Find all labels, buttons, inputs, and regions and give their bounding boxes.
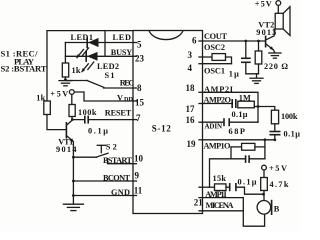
svg-text:AMP1O: AMP1O	[204, 141, 232, 150]
wire BUSY pin23	[65, 55, 133, 57]
svg-text:+5V: +5V	[50, 90, 68, 99]
svg-text:15k: 15k	[213, 174, 227, 183]
switch S1	[66, 71, 115, 88]
wire AMP2O pin17	[203, 103, 232, 105]
wire RESET pin7	[88, 119, 133, 121]
svg-text:21: 21	[194, 197, 204, 207]
resistor R (OSC2)	[212, 54, 226, 61]
wire MICENA pin21	[203, 210, 244, 212]
svg-text:ADIN: ADIN	[205, 122, 223, 130]
svg-text:8: 8	[137, 83, 142, 93]
svg-text:BCONT: BCONT	[103, 173, 130, 182]
capacitor C 0.1u (AMP2 chain)	[270, 124, 301, 140]
svg-text:1k: 1k	[72, 66, 81, 75]
svg-text:10: 10	[134, 154, 144, 164]
wire +5V to VDD	[74, 92, 133, 101]
wire COUT pin6	[203, 40, 266, 42]
ground (main left bus)	[63, 204, 83, 210]
wire feedback to AMP1I	[210, 159, 232, 187]
svg-text:LED2: LED2	[97, 62, 119, 71]
svg-text:REC: REC	[120, 79, 135, 88]
capacitor C 1u	[229, 41, 259, 78]
svg-text:23: 23	[135, 54, 145, 64]
node: 1k bottom / S1 junction	[64, 78, 67, 81]
microphone B	[257, 200, 280, 215]
wire OSC2 pin3	[203, 56, 213, 58]
node COUT/220	[257, 40, 260, 43]
IC U1 S-12 body	[133, 31, 203, 214]
svg-text:BSTART: BSTART	[103, 156, 132, 165]
wire BSTART pin10	[108, 159, 134, 164]
wire OSC1 pin4	[203, 63, 232, 65]
top-left wire from 1k to IC top	[47, 31, 133, 101]
wire emitter to ground	[273, 50, 274, 53]
svg-text:0.1μ: 0.1μ	[232, 110, 248, 119]
IC notch	[149, 31, 183, 40]
svg-text:19: 19	[187, 139, 197, 149]
svg-text:18: 18	[186, 83, 196, 93]
left pin stubs	[133, 43, 137, 196]
capacitor C 0.1u (AMP2O)	[232, 99, 236, 108]
svg-text:+5V: +5V	[255, 0, 272, 9]
svg-text:RESET: RESET	[105, 108, 132, 117]
svg-text:17: 17	[186, 104, 196, 114]
svg-text:GND: GND	[111, 188, 130, 197]
LED LED2	[81, 51, 119, 73]
wire BCONT pin9	[73, 180, 133, 182]
wire 100k bottom to node	[72, 117, 85, 120]
svg-text:OSC2: OSC2	[204, 43, 225, 52]
svg-text:AMP2I: AMP2I	[204, 85, 233, 94]
svg-text:100k: 100k	[281, 112, 298, 121]
svg-text:AMP2O: AMP2O	[204, 95, 232, 104]
svg-text:6: 6	[192, 36, 197, 46]
svg-text:1k: 1k	[36, 93, 45, 102]
svg-text:LED1: LED1	[71, 33, 94, 42]
svg-text:+5V: +5V	[269, 164, 287, 173]
wire 1k to VT1 base	[47, 115, 66, 130]
node AMP1O/feedback	[264, 138, 267, 141]
svg-text:S2 :BSTART: S2 :BSTART	[1, 64, 47, 74]
svg-text:0.1μ: 0.1μ	[88, 126, 108, 135]
svg-text:V: V	[117, 94, 123, 103]
wire +5V down to 100k	[71, 94, 73, 104]
wire GND pin11	[73, 195, 133, 197]
wire AMP1I label pin	[203, 198, 265, 227]
capacitor C 68P	[224, 118, 229, 126]
wire AMP1I pin20	[203, 186, 215, 188]
wire AMP1O pin19	[203, 139, 275, 141]
wire AMP2I pin18	[203, 92, 259, 122]
svg-text:4.7k: 4.7k	[270, 180, 289, 189]
wire REC pin8	[104, 87, 134, 89]
svg-text:1M: 1M	[239, 94, 251, 103]
capacitor C 0.1u (mic)	[230, 183, 236, 191]
resistor R 220	[255, 41, 288, 78]
resistor R 1k (LED chain)	[62, 63, 68, 77]
resistor R 4.7k	[261, 170, 289, 201]
svg-text:S1: S1	[105, 71, 115, 80]
resistor R 100k (AMP2)	[271, 110, 278, 124]
svg-text:S-12: S-12	[152, 123, 172, 133]
svg-text:0.1μ: 0.1μ	[238, 177, 257, 186]
svg-text:LED: LED	[113, 33, 132, 42]
svg-text:100k: 100k	[78, 108, 97, 117]
node COUT/1u	[244, 40, 247, 43]
right pin stubs	[199, 41, 203, 211]
capacitor C 0.1u (reset)	[85, 116, 88, 124]
wire busy-to-top vertical	[104, 31, 106, 57]
svg-text:11: 11	[134, 185, 143, 195]
svg-text:MICENA: MICENA	[206, 201, 234, 210]
transistor Q VT2 9013	[256, 20, 276, 50]
svg-text:AMP1I: AMP1I	[205, 190, 227, 199]
transistor Q VT1 9014	[56, 120, 77, 154]
terminal +5V (mic)	[262, 165, 267, 170]
svg-text:15: 15	[135, 98, 145, 108]
svg-text:BUSY: BUSY	[111, 48, 133, 57]
svg-text:220 Ω: 220 Ω	[264, 62, 288, 71]
svg-text:4: 4	[188, 63, 193, 73]
svg-text:7: 7	[136, 113, 141, 123]
svg-text:OSC1: OSC1	[204, 66, 225, 75]
svg-text:0.1μ: 0.1μ	[284, 130, 301, 139]
wire LED pin5	[65, 42, 133, 44]
capacitor C (AMP1 feedback)	[231, 147, 265, 163]
resistor R 1k (left, base of VT1)	[44, 101, 51, 115]
ground (LED 1k)	[59, 81, 72, 86]
terminal +5V (speaker)	[276, 1, 281, 6]
svg-text:16: 16	[186, 115, 196, 125]
svg-text:B: B	[274, 204, 280, 213]
switch S2 (pushbutton)	[73, 143, 116, 158]
resistor R (AMP1 feedback)	[231, 140, 265, 150]
svg-text:COUT: COUT	[204, 32, 227, 41]
wire ADIN pin16	[203, 121, 224, 123]
svg-text:3: 3	[188, 50, 193, 60]
ground (VT2 emitter)	[269, 53, 281, 58]
node mic/4.7k	[262, 193, 265, 196]
wire LED bus vertical	[64, 43, 66, 64]
resistor R 100k (reset)	[69, 105, 75, 117]
svg-text:9013: 9013	[256, 28, 276, 37]
terminal +5V (left)	[69, 90, 74, 95]
svg-text:9: 9	[135, 171, 140, 181]
LED LED1	[71, 33, 99, 59]
svg-text:DD: DD	[124, 96, 133, 103]
svg-text:68P: 68P	[229, 127, 246, 136]
resistor R 15k	[215, 184, 227, 191]
wire node to 100k	[258, 107, 275, 111]
wire VT1 emitter down to bus	[72, 142, 74, 204]
node AMP1O/0.1u	[273, 138, 276, 141]
ground (COUT filter)	[250, 78, 263, 83]
svg-text:5: 5	[137, 39, 142, 49]
resistor R 1M	[238, 101, 255, 108]
node: emitter bus / S2	[72, 156, 75, 159]
svg-text:1μ: 1μ	[229, 69, 239, 78]
speaker BL	[275, 5, 290, 35]
